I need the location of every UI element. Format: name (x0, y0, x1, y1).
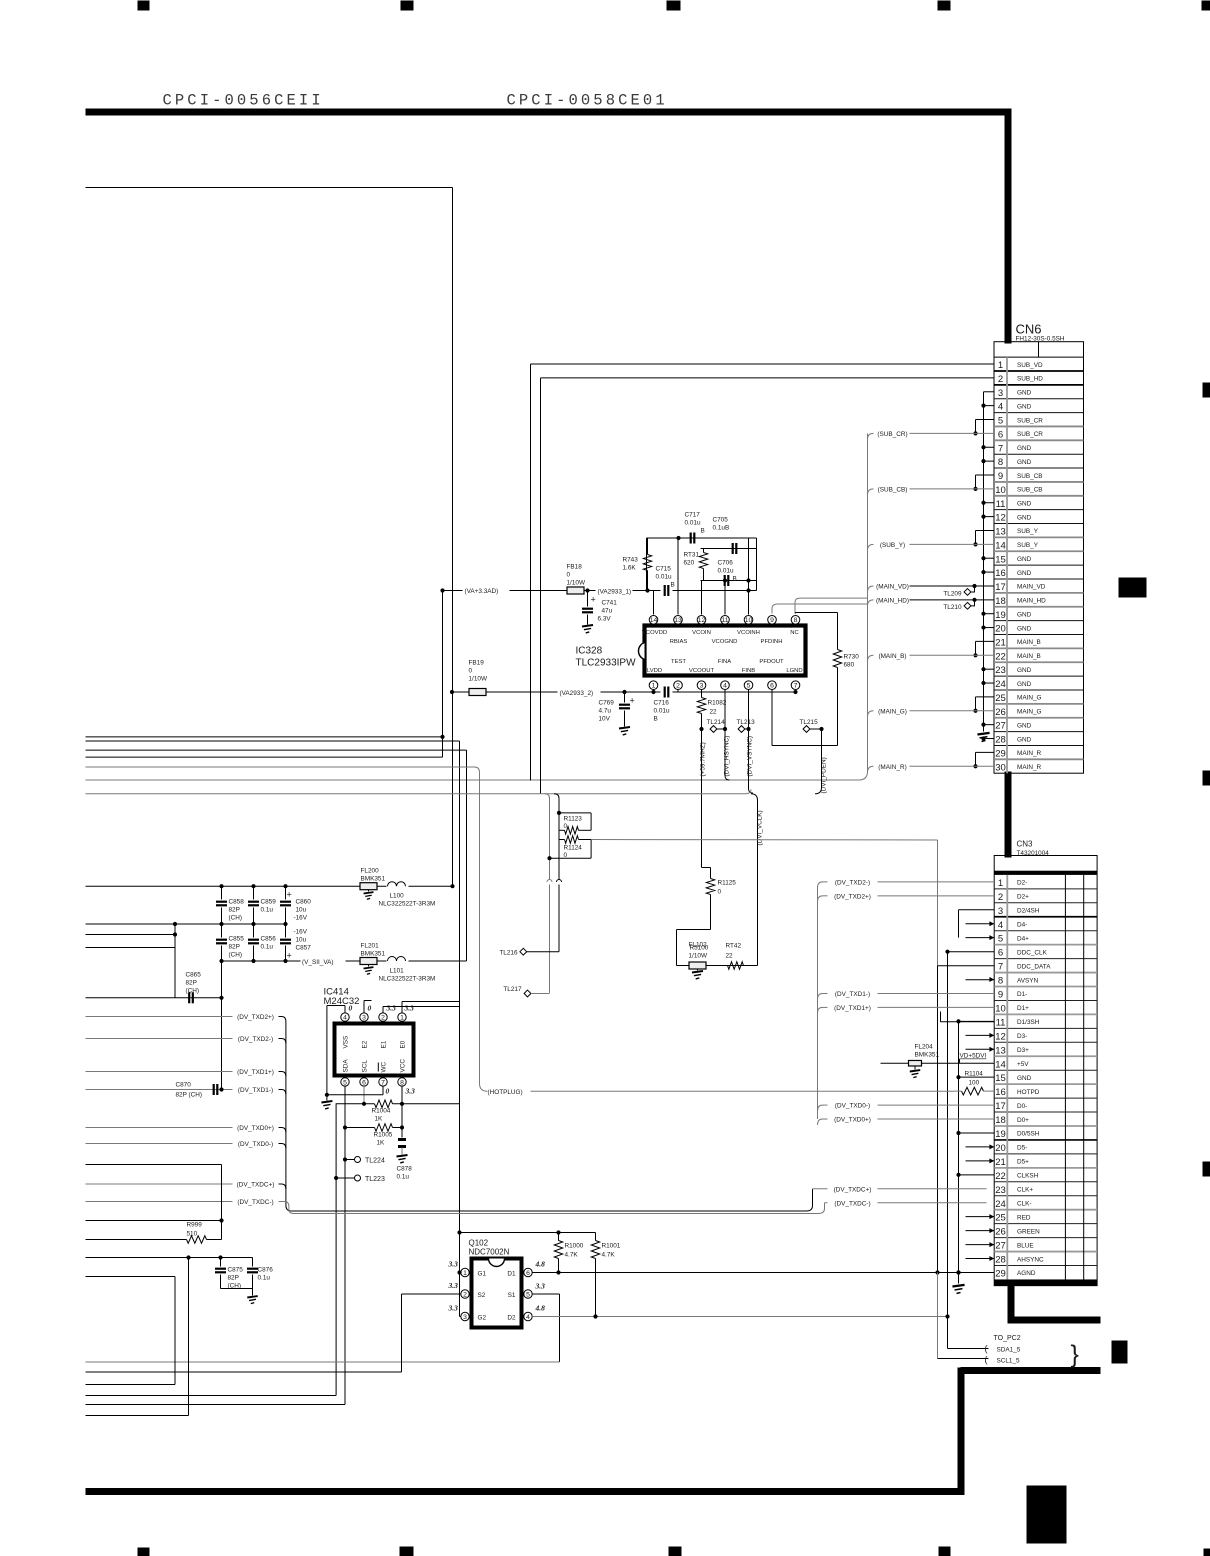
svg-text:21: 21 (995, 1157, 1006, 1168)
svg-text:82P: 82P (186, 980, 197, 987)
svg-text:7: 7 (998, 962, 1003, 973)
svg-text:4: 4 (723, 683, 727, 690)
svg-text:FINA: FINA (718, 659, 731, 665)
svg-text:5: 5 (998, 416, 1003, 427)
svg-text:9: 9 (998, 990, 1003, 1001)
svg-text:NDC7002N: NDC7002N (469, 1248, 510, 1257)
svg-text:SUB_CR: SUB_CR (1017, 417, 1043, 424)
svg-text:BLUE: BLUE (1017, 1242, 1034, 1249)
svg-text:(+59.7MHZ): (+59.7MHZ) (700, 742, 707, 776)
svg-text:0.1u: 0.1u (261, 944, 274, 951)
svg-text:82P: 82P (228, 1275, 239, 1282)
svg-text:AGND: AGND (1017, 1270, 1036, 1277)
svg-text:-16V: -16V (294, 915, 308, 922)
svg-text:10: 10 (995, 1003, 1006, 1014)
svg-text:D5-: D5- (1017, 1145, 1027, 1152)
svg-text:1: 1 (400, 1015, 404, 1022)
svg-text:3: 3 (463, 1314, 467, 1321)
svg-text:14: 14 (995, 540, 1006, 551)
svg-text:CPCI-0058CE01: CPCI-0058CE01 (507, 92, 668, 110)
svg-text:1: 1 (463, 1270, 467, 1277)
svg-text:47u: 47u (602, 608, 613, 615)
svg-text:16: 16 (995, 1087, 1006, 1098)
svg-text:0.01u: 0.01u (654, 708, 670, 715)
svg-text:12: 12 (995, 513, 1006, 524)
svg-text:Q102: Q102 (469, 1239, 489, 1248)
svg-text:6: 6 (770, 683, 774, 690)
svg-text:10u: 10u (296, 937, 307, 944)
svg-text:TLC2933IPW: TLC2933IPW (576, 658, 637, 669)
svg-text:5: 5 (998, 934, 1003, 945)
svg-text:GND: GND (1017, 1075, 1032, 1082)
svg-text:E0: E0 (400, 1040, 407, 1048)
svg-text:SUB_Y: SUB_Y (1017, 542, 1039, 549)
svg-text:1: 1 (998, 878, 1003, 889)
svg-text:SCL: SCL (362, 1060, 369, 1073)
svg-text:TL217: TL217 (503, 986, 522, 993)
svg-text:4.7K: 4.7K (602, 1252, 616, 1259)
svg-text:GND: GND (1017, 625, 1032, 632)
svg-text:(DV_TXD2-): (DV_TXD2-) (835, 879, 870, 886)
svg-text:GND: GND (1017, 681, 1032, 688)
svg-text:TL216: TL216 (499, 950, 518, 957)
svg-text:R1123: R1123 (564, 816, 583, 823)
svg-text:D1+: D1+ (1017, 1005, 1029, 1012)
svg-text:VCOIN: VCOIN (692, 630, 711, 636)
svg-text:20: 20 (995, 624, 1006, 635)
svg-text:SUB_CB: SUB_CB (1017, 473, 1043, 480)
svg-text:3.3: 3.3 (448, 1281, 459, 1290)
svg-text:0.1uB: 0.1uB (713, 525, 730, 532)
svg-text:C855: C855 (229, 936, 245, 943)
svg-text:LGND: LGND (786, 668, 802, 674)
svg-text:C870: C870 (176, 1082, 192, 1089)
svg-text:4.7u: 4.7u (599, 708, 612, 715)
svg-text:0: 0 (469, 668, 473, 675)
svg-text:27: 27 (995, 1241, 1006, 1252)
svg-text:B: B (654, 716, 658, 723)
svg-text:CLK-: CLK- (1017, 1200, 1032, 1207)
svg-text:22: 22 (710, 709, 718, 716)
svg-text:9: 9 (770, 617, 774, 624)
svg-text:23: 23 (995, 665, 1006, 676)
svg-text:11: 11 (721, 617, 728, 624)
svg-text:C859: C859 (261, 899, 277, 906)
svg-text:2: 2 (998, 374, 1003, 385)
svg-text:8: 8 (998, 457, 1003, 468)
svg-text:RT42: RT42 (726, 943, 742, 950)
svg-text:620: 620 (684, 560, 695, 567)
svg-text:TL214: TL214 (707, 719, 726, 726)
svg-text:19: 19 (995, 1129, 1006, 1140)
svg-text:13: 13 (674, 617, 682, 624)
svg-text:MAIN_G: MAIN_G (1017, 695, 1042, 702)
svg-text:GND: GND (1017, 570, 1032, 577)
svg-text:BMK351: BMK351 (915, 1052, 940, 1059)
svg-text:D2: D2 (507, 1315, 516, 1322)
svg-text:TL223: TL223 (365, 1176, 385, 1183)
svg-text:R1001: R1001 (602, 1243, 621, 1250)
svg-text:27: 27 (995, 721, 1006, 732)
svg-text:5: 5 (526, 1291, 530, 1298)
svg-text:(DV_TXDC-): (DV_TXDC-) (237, 1199, 273, 1206)
svg-text:13: 13 (995, 527, 1006, 538)
svg-text:28: 28 (995, 735, 1006, 746)
svg-text:B: B (701, 528, 705, 535)
svg-text:28: 28 (995, 1255, 1006, 1266)
svg-text:SUB_VD: SUB_VD (1017, 362, 1043, 369)
svg-text:D4+: D4+ (1017, 935, 1029, 942)
svg-text:D3-: D3- (1017, 1033, 1027, 1040)
svg-text:29: 29 (995, 748, 1006, 759)
svg-text:13: 13 (995, 1045, 1006, 1056)
svg-text:VCC: VCC (400, 1059, 407, 1073)
svg-text:GND: GND (1017, 459, 1032, 466)
svg-text:+: + (287, 890, 292, 900)
svg-text:2: 2 (998, 892, 1003, 903)
svg-text:(DV_TXD1-): (DV_TXD1-) (238, 1087, 273, 1094)
svg-text:20: 20 (995, 1143, 1006, 1154)
svg-text:3: 3 (998, 906, 1003, 917)
svg-text:CLK+: CLK+ (1017, 1187, 1033, 1194)
svg-text:8: 8 (998, 976, 1003, 987)
svg-text:R1124: R1124 (564, 845, 583, 852)
svg-text:SCL1_5: SCL1_5 (997, 1358, 1021, 1365)
svg-text:VCOGND: VCOGND (712, 639, 738, 645)
svg-text:680: 680 (844, 662, 855, 669)
svg-text:6: 6 (998, 948, 1003, 959)
svg-text:0: 0 (718, 889, 722, 896)
svg-text:2: 2 (463, 1291, 467, 1298)
svg-text:DDC_DATA: DDC_DATA (1017, 963, 1051, 970)
svg-text:(DV_TXD2-): (DV_TXD2-) (238, 1036, 273, 1043)
svg-text:FB19: FB19 (469, 660, 485, 667)
svg-text:BMK351: BMK351 (361, 951, 386, 958)
svg-text:BMK351: BMK351 (361, 876, 386, 883)
svg-text:4.8: 4.8 (535, 1260, 546, 1269)
svg-text:(: ( (985, 1344, 988, 1354)
svg-text:6.3V: 6.3V (598, 616, 612, 623)
svg-text:(DV_TXD0-): (DV_TXD0-) (238, 1141, 273, 1148)
svg-text:(DVI_VSYNC): (DVI_VSYNC) (747, 736, 754, 776)
svg-text:11: 11 (996, 499, 1006, 510)
svg-text:L101: L101 (390, 968, 405, 975)
svg-text:12: 12 (698, 617, 706, 624)
svg-text:8: 8 (400, 1079, 404, 1086)
svg-text:(DV_TXD0-): (DV_TXD0-) (835, 1103, 870, 1110)
svg-text:C865: C865 (186, 972, 202, 979)
svg-text:GND: GND (1017, 390, 1032, 397)
svg-text:FINB: FINB (742, 668, 755, 674)
svg-text:(MAIN_VD): (MAIN_VD) (876, 584, 909, 591)
svg-text:SUB_CB: SUB_CB (1017, 487, 1043, 494)
svg-text:VSS: VSS (343, 1036, 350, 1049)
svg-text:CPCI-0056CEII: CPCI-0056CEII (163, 92, 324, 110)
svg-text:LVDD: LVDD (647, 668, 662, 674)
svg-text:CN3: CN3 (1017, 840, 1034, 849)
svg-text:RED: RED (1017, 1214, 1031, 1221)
svg-text:0.01u: 0.01u (685, 520, 701, 527)
svg-text:R1104: R1104 (965, 1071, 984, 1078)
svg-text:(DV_TXD1+): (DV_TXD1+) (834, 1005, 871, 1012)
svg-text:(MAIN_B): (MAIN_B) (878, 653, 906, 660)
svg-text:DDC_CLK: DDC_CLK (1017, 949, 1048, 956)
svg-text:PFDOUT: PFDOUT (759, 659, 784, 665)
svg-text:12: 12 (995, 1031, 1006, 1042)
svg-text:(VA2933_1): (VA2933_1) (598, 589, 632, 596)
svg-text:MAIN_HD: MAIN_HD (1017, 598, 1046, 605)
svg-text:GND: GND (1017, 556, 1032, 563)
svg-text:(SUB_CR): (SUB_CR) (877, 431, 907, 438)
svg-text:C717: C717 (685, 512, 701, 519)
svg-text:23: 23 (995, 1185, 1006, 1196)
svg-text:+: + (630, 696, 635, 706)
svg-text:AHSYNC: AHSYNC (1017, 1256, 1044, 1263)
svg-text:0: 0 (386, 1087, 390, 1096)
svg-text:(MAIN_R): (MAIN_R) (878, 764, 906, 771)
svg-text:C716: C716 (654, 700, 670, 707)
svg-text:(CH): (CH) (229, 952, 243, 959)
svg-text:17: 17 (995, 1101, 1006, 1112)
svg-text:E1: E1 (381, 1040, 388, 1048)
svg-text:TL224: TL224 (365, 1158, 385, 1165)
svg-text:9: 9 (998, 471, 1003, 482)
svg-text:2: 2 (676, 683, 680, 690)
svg-text:SUB_HD: SUB_HD (1017, 376, 1043, 383)
svg-text:1/10W: 1/10W (567, 580, 586, 587)
svg-text:6: 6 (998, 429, 1003, 440)
svg-text:29: 29 (995, 1269, 1006, 1280)
svg-text:(DV_TXD1-): (DV_TXD1-) (835, 991, 870, 998)
svg-text:10: 10 (995, 485, 1006, 496)
svg-text:IC328: IC328 (576, 646, 603, 657)
svg-text:4.8: 4.8 (535, 1304, 546, 1313)
svg-text:D1: D1 (507, 1271, 516, 1278)
svg-text:TL209: TL209 (943, 590, 962, 597)
svg-text:C875: C875 (228, 1267, 244, 1274)
svg-text:(DV_TXD1+): (DV_TXD1+) (237, 1069, 274, 1076)
svg-text:D2+: D2+ (1017, 894, 1029, 901)
svg-text:(DV_TXDC+): (DV_TXDC+) (834, 1186, 872, 1193)
svg-text:RT31: RT31 (684, 552, 700, 559)
svg-text:0.01u: 0.01u (718, 568, 734, 575)
svg-text:D5+: D5+ (1017, 1159, 1029, 1166)
svg-text:MAIN_G: MAIN_G (1017, 709, 1042, 716)
svg-text:(MAIN_G): (MAIN_G) (878, 708, 907, 715)
svg-text:(VA+3.3AD): (VA+3.3AD) (465, 588, 499, 595)
svg-text:FL200: FL200 (361, 868, 380, 875)
svg-text:(: ( (985, 1355, 988, 1365)
svg-text:MAIN_B: MAIN_B (1017, 639, 1041, 646)
svg-text:TL213: TL213 (737, 719, 756, 726)
svg-text:L100: L100 (390, 893, 405, 900)
svg-text:0.01u: 0.01u (656, 574, 672, 581)
svg-text:4: 4 (998, 402, 1003, 413)
svg-text:(VA2933_2): (VA2933_2) (560, 690, 594, 697)
svg-text:VD+5DVI: VD+5DVI (960, 1053, 987, 1060)
svg-text:1: 1 (998, 360, 1003, 371)
svg-text:10V: 10V (599, 716, 611, 723)
svg-text:1: 1 (652, 683, 656, 690)
svg-text:R5100: R5100 (690, 945, 709, 952)
svg-text:3.3: 3.3 (404, 1004, 415, 1013)
svg-text:2: 2 (381, 1015, 385, 1022)
svg-text:82P: 82P (229, 944, 240, 951)
svg-text:PFDINH: PFDINH (761, 639, 783, 645)
svg-text:SUB_CR: SUB_CR (1017, 431, 1043, 438)
svg-text:24: 24 (995, 1199, 1006, 1210)
svg-text:CLKSH: CLKSH (1017, 1173, 1039, 1180)
svg-text:6: 6 (362, 1079, 366, 1086)
svg-text:5: 5 (747, 683, 751, 690)
svg-text:B: B (671, 582, 675, 589)
svg-text:GND: GND (1017, 736, 1032, 743)
svg-text:30: 30 (995, 762, 1006, 773)
svg-text:GND: GND (1017, 722, 1032, 729)
svg-text:11: 11 (996, 1017, 1006, 1028)
svg-text:C741: C741 (602, 600, 618, 607)
svg-text:RBIAS: RBIAS (670, 639, 688, 645)
svg-text:82P (CH): 82P (CH) (176, 1092, 203, 1099)
svg-text:C857: C857 (296, 945, 312, 952)
svg-text:C856: C856 (261, 936, 277, 943)
svg-text:MAIN_R: MAIN_R (1017, 750, 1042, 757)
svg-text:(V_SII_VA): (V_SII_VA) (302, 959, 334, 966)
svg-text:10u: 10u (296, 907, 307, 914)
svg-text:14: 14 (995, 1059, 1006, 1070)
svg-text:0.1u: 0.1u (261, 907, 274, 914)
svg-text:AVSYN: AVSYN (1017, 977, 1039, 984)
svg-text:(SUB_CB): (SUB_CB) (878, 486, 908, 493)
svg-text:1K: 1K (375, 1116, 384, 1123)
svg-text:VCOOUT: VCOOUT (689, 668, 715, 674)
svg-text:D4-: D4- (1017, 921, 1027, 928)
svg-text:5: 5 (343, 1079, 347, 1086)
svg-text:GND: GND (1017, 667, 1032, 674)
svg-text:VCOINH: VCOINH (737, 630, 760, 636)
svg-text:SUB_Y: SUB_Y (1017, 528, 1039, 535)
svg-text:15: 15 (995, 1073, 1006, 1084)
svg-text:(DV_TXD2+): (DV_TXD2+) (237, 1014, 274, 1021)
svg-text:(SUB_Y): (SUB_Y) (880, 542, 905, 549)
svg-text:3: 3 (362, 1015, 366, 1022)
svg-text:R999: R999 (187, 1222, 203, 1229)
svg-text:(DV_TXDC+): (DV_TXDC+) (237, 1182, 275, 1189)
svg-text:26: 26 (995, 1227, 1006, 1238)
svg-text:SDA1_5: SDA1_5 (997, 1347, 1021, 1354)
svg-text:GND: GND (1017, 611, 1032, 618)
svg-text:MAIN_VD: MAIN_VD (1017, 584, 1046, 591)
svg-text:(DV_TXD0+): (DV_TXD0+) (237, 1125, 274, 1132)
svg-text:CN6: CN6 (1016, 322, 1042, 337)
svg-text:D3+: D3+ (1017, 1047, 1029, 1054)
svg-text:4: 4 (526, 1314, 530, 1321)
svg-text:19: 19 (995, 610, 1006, 621)
svg-text:GND: GND (1017, 514, 1032, 521)
svg-text:+5V: +5V (1017, 1061, 1029, 1068)
svg-text:TL215: TL215 (800, 719, 819, 726)
svg-text:C706: C706 (718, 560, 734, 567)
svg-text:(DV_TXDC-): (DV_TXDC-) (834, 1200, 870, 1207)
svg-text:7: 7 (381, 1079, 385, 1086)
svg-text:0: 0 (368, 1004, 372, 1013)
svg-text:16: 16 (995, 568, 1006, 579)
svg-text:E2: E2 (362, 1040, 369, 1048)
svg-text:C860: C860 (296, 899, 312, 906)
svg-text:100: 100 (969, 1080, 980, 1087)
svg-text:SDA: SDA (343, 1059, 350, 1073)
svg-text:4.7K: 4.7K (565, 1252, 579, 1259)
svg-text:(CH): (CH) (229, 915, 243, 922)
svg-text:+: + (591, 595, 596, 605)
svg-text:TEST: TEST (671, 659, 686, 665)
svg-text:6: 6 (526, 1270, 530, 1277)
svg-text:R730: R730 (844, 654, 860, 661)
svg-text:1K: 1K (377, 1140, 386, 1147)
svg-text:22: 22 (995, 651, 1006, 662)
svg-text:(HOTPLUG): (HOTPLUG) (488, 1089, 523, 1096)
svg-text:B: B (733, 576, 737, 583)
svg-text:FB18: FB18 (567, 564, 583, 571)
svg-text:22: 22 (995, 1171, 1006, 1182)
svg-text:+: + (287, 951, 292, 961)
svg-text:S1: S1 (508, 1292, 516, 1299)
svg-text:R1005: R1005 (374, 1132, 393, 1139)
svg-text:3: 3 (700, 683, 704, 690)
svg-text:D2-: D2- (1017, 880, 1027, 887)
svg-text:}: } (1071, 1341, 1079, 1369)
svg-text:R1004: R1004 (372, 1108, 391, 1115)
svg-text:R1082: R1082 (708, 700, 727, 707)
svg-text:D0-: D0- (1017, 1103, 1027, 1110)
svg-text:3.3: 3.3 (448, 1260, 459, 1269)
svg-text:D0+: D0+ (1017, 1117, 1029, 1124)
svg-text:10: 10 (745, 617, 753, 624)
svg-text:TO_PC2: TO_PC2 (994, 1335, 1021, 1342)
svg-text:3.3: 3.3 (535, 1282, 546, 1291)
svg-text:R743: R743 (623, 557, 639, 564)
svg-text:R1125: R1125 (718, 880, 737, 887)
svg-text:22: 22 (726, 953, 734, 960)
svg-text:25: 25 (995, 1213, 1006, 1224)
svg-text:1.6K: 1.6K (623, 565, 637, 572)
svg-text:18: 18 (995, 596, 1006, 607)
svg-text:C878: C878 (397, 1166, 413, 1173)
svg-text:MAIN_R: MAIN_R (1017, 764, 1042, 771)
svg-text:-16V: -16V (294, 929, 308, 936)
svg-text:GREEN: GREEN (1017, 1228, 1040, 1235)
svg-text:3.3: 3.3 (405, 1087, 416, 1096)
svg-text:(DV_TXD2+): (DV_TXD2+) (834, 893, 871, 900)
svg-text:21: 21 (995, 638, 1006, 649)
svg-text:TL210: TL210 (943, 604, 962, 611)
svg-text:C858: C858 (229, 899, 245, 906)
svg-text:17: 17 (995, 582, 1006, 593)
svg-text:D2/4SH: D2/4SH (1017, 908, 1040, 915)
svg-text:D1-: D1- (1017, 991, 1027, 998)
svg-text:D0/5SH: D0/5SH (1017, 1131, 1040, 1138)
svg-text:WC: WC (381, 1061, 388, 1072)
svg-text:VCOVDD: VCOVDD (642, 630, 667, 636)
svg-text:GND: GND (1017, 403, 1032, 410)
svg-text:(MAIN_HD): (MAIN_HD) (876, 597, 909, 604)
svg-text:MAIN_B: MAIN_B (1017, 653, 1041, 660)
svg-text:R1000: R1000 (565, 1243, 584, 1250)
svg-text:C769: C769 (599, 700, 615, 707)
svg-text:1/10W: 1/10W (689, 953, 708, 960)
svg-text:GND: GND (1017, 445, 1032, 452)
svg-text:4: 4 (343, 1015, 347, 1022)
